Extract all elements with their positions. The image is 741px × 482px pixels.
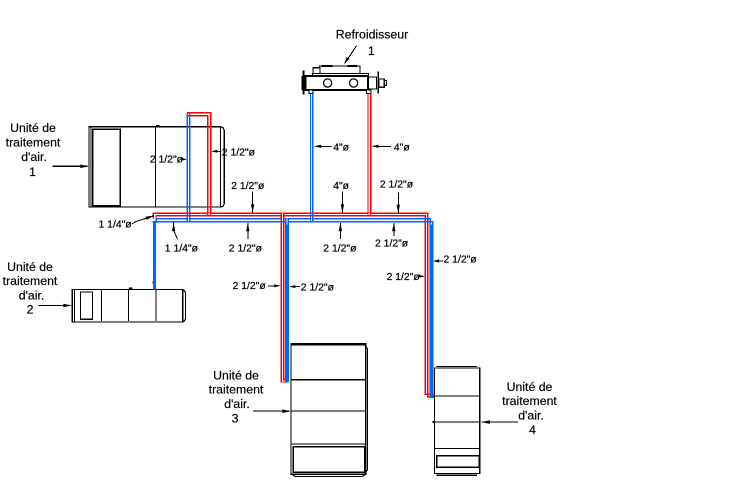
svg-text:2 1/2"ø: 2 1/2"ø	[231, 181, 265, 192]
svg-text:1 1/4"ø: 1 1/4"ø	[99, 220, 133, 231]
svg-text:traitement: traitement	[209, 383, 264, 397]
svg-text:4"ø: 4"ø	[333, 181, 349, 192]
blue solid drop to AHU2	[153, 221, 156, 289]
arrow label AHU1	[52, 165, 89, 169]
label AHU3	[209, 368, 264, 425]
arrow 4 red	[371, 145, 391, 148]
pipe red riser to AHU1 (loop)	[187, 113, 211, 217]
chiller CH1	[302, 65, 387, 94]
leader 1 1/4 top-left	[132, 216, 154, 224]
pipe chilled-water supply main (red)	[153, 213, 434, 396]
svg-text:Unité de: Unité de	[10, 121, 56, 135]
svg-text:d'air.: d'air.	[19, 288, 45, 302]
svg-text:4: 4	[529, 423, 536, 437]
label AHU4	[502, 380, 557, 437]
svg-text:2 1/2"ø: 2 1/2"ø	[301, 283, 335, 294]
svg-text:2 1/2"ø: 2 1/2"ø	[375, 239, 409, 250]
leader Refroidisseur	[344, 46, 356, 65]
leader 1 1/4 bottom (bent, up arrow)	[172, 223, 178, 240]
blue end blob at AHU4	[430, 395, 435, 398]
svg-text:Unité de: Unité de	[507, 380, 553, 394]
arrow label AHU2	[39, 304, 72, 308]
up arrow 2 1/2 x247.8	[246, 223, 249, 239]
pipe red drop from chiller	[368, 94, 371, 217]
pipe blue drop from chiller	[311, 94, 313, 223]
arrow label AHU4	[481, 420, 517, 424]
label AHU1	[6, 121, 61, 179]
pipe chilled-water return main (blue)	[153, 219, 432, 398]
arrow 2 1/2 at blue riser (L1)	[181, 158, 187, 161]
svg-text:1 1/4"ø: 1 1/4"ø	[165, 243, 199, 254]
svg-text:1: 1	[29, 165, 36, 179]
AHU 2 body	[72, 288, 185, 322]
up arrow 2 1/2 x340.4	[339, 223, 342, 239]
AHU 4 body	[433, 366, 480, 475]
svg-text:2 1/2"ø: 2 1/2"ø	[222, 148, 256, 159]
svg-text:2 1/2"ø: 2 1/2"ø	[387, 272, 421, 283]
blue end blob at AHU3	[285, 379, 288, 382]
svg-text:traitement: traitement	[502, 394, 557, 408]
svg-text:traitement: traitement	[3, 274, 58, 288]
svg-text:4"ø: 4"ø	[333, 142, 349, 153]
svg-text:Unité de: Unité de	[7, 260, 53, 274]
svg-text:2: 2	[27, 303, 34, 317]
svg-text:d'air.: d'air.	[21, 150, 47, 164]
svg-text:1: 1	[368, 44, 375, 58]
down arrow 2 1/2 x252.6	[251, 192, 254, 213]
pipe blue riser AHU1	[187, 113, 190, 222]
up arrow 2 1/2 x393.8	[392, 223, 395, 236]
svg-text:d'air.: d'air.	[518, 408, 544, 422]
svg-text:Refroidisseur: Refroidisseur	[336, 27, 408, 41]
AHU 1 body	[89, 125, 224, 207]
arrow 4 blue	[314, 145, 332, 148]
arrow 2 1/2 to red drop (right)	[419, 275, 425, 278]
svg-text:d'air.: d'air.	[224, 397, 250, 411]
arrow label AHU3	[253, 409, 291, 413]
label AHU2	[3, 260, 58, 317]
svg-text:4"ø: 4"ø	[394, 142, 410, 153]
svg-text:2 1/2"ø: 2 1/2"ø	[380, 179, 414, 190]
svg-text:Unité de: Unité de	[213, 368, 259, 382]
red sliver at AHU2 drop	[152, 281, 154, 284]
blue solid overlay AHU4 drop	[430, 225, 433, 397]
arrow 2 1/2 to blue drop (mid)	[289, 285, 300, 288]
junction restore segments	[186, 213, 371, 222]
svg-text:2 1/2"ø: 2 1/2"ø	[233, 281, 267, 292]
svg-text:3: 3	[232, 411, 239, 425]
svg-text:2 1/2"ø: 2 1/2"ø	[229, 243, 263, 254]
arrow 2 1/2 to red drop (mid)	[268, 284, 281, 287]
label Refroidisseur 1	[336, 27, 408, 58]
down arrow 4 x342.4	[341, 192, 344, 213]
pipe blue drop to AHU3	[286, 218, 288, 382]
svg-text:2 1/2"ø: 2 1/2"ø	[150, 154, 184, 165]
pipe red drop to AHU3	[281, 213, 288, 382]
arrow 2 1/2 at red riser (R1)	[211, 150, 221, 153]
AHU 3 body	[291, 344, 367, 477]
down arrow 2 1/2 x398.3	[397, 193, 400, 214]
svg-text:traitement: traitement	[6, 136, 61, 150]
svg-text:2 1/2"ø: 2 1/2"ø	[444, 255, 478, 266]
arrow 2 1/2 to blue drop (right)	[433, 260, 443, 263]
svg-text:2 1/2"ø: 2 1/2"ø	[323, 243, 357, 254]
junction notches	[188, 213, 371, 222]
